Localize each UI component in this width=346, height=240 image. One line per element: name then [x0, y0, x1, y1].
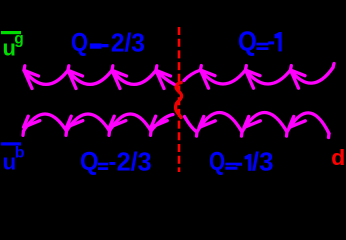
svg-text:2/3: 2/3: [111, 29, 145, 57]
svg-text:/3: /3: [252, 148, 274, 176]
svg-text:g: g: [14, 31, 23, 48]
svg-text:b: b: [15, 145, 25, 162]
svg-text:Q: Q: [80, 146, 99, 176]
svg-text:Q: Q: [238, 26, 257, 57]
svg-text:d: d: [331, 145, 345, 170]
svg-text:Q: Q: [71, 27, 88, 57]
svg-text:Q: Q: [209, 148, 225, 176]
svg-text:2/3: 2/3: [117, 146, 152, 176]
